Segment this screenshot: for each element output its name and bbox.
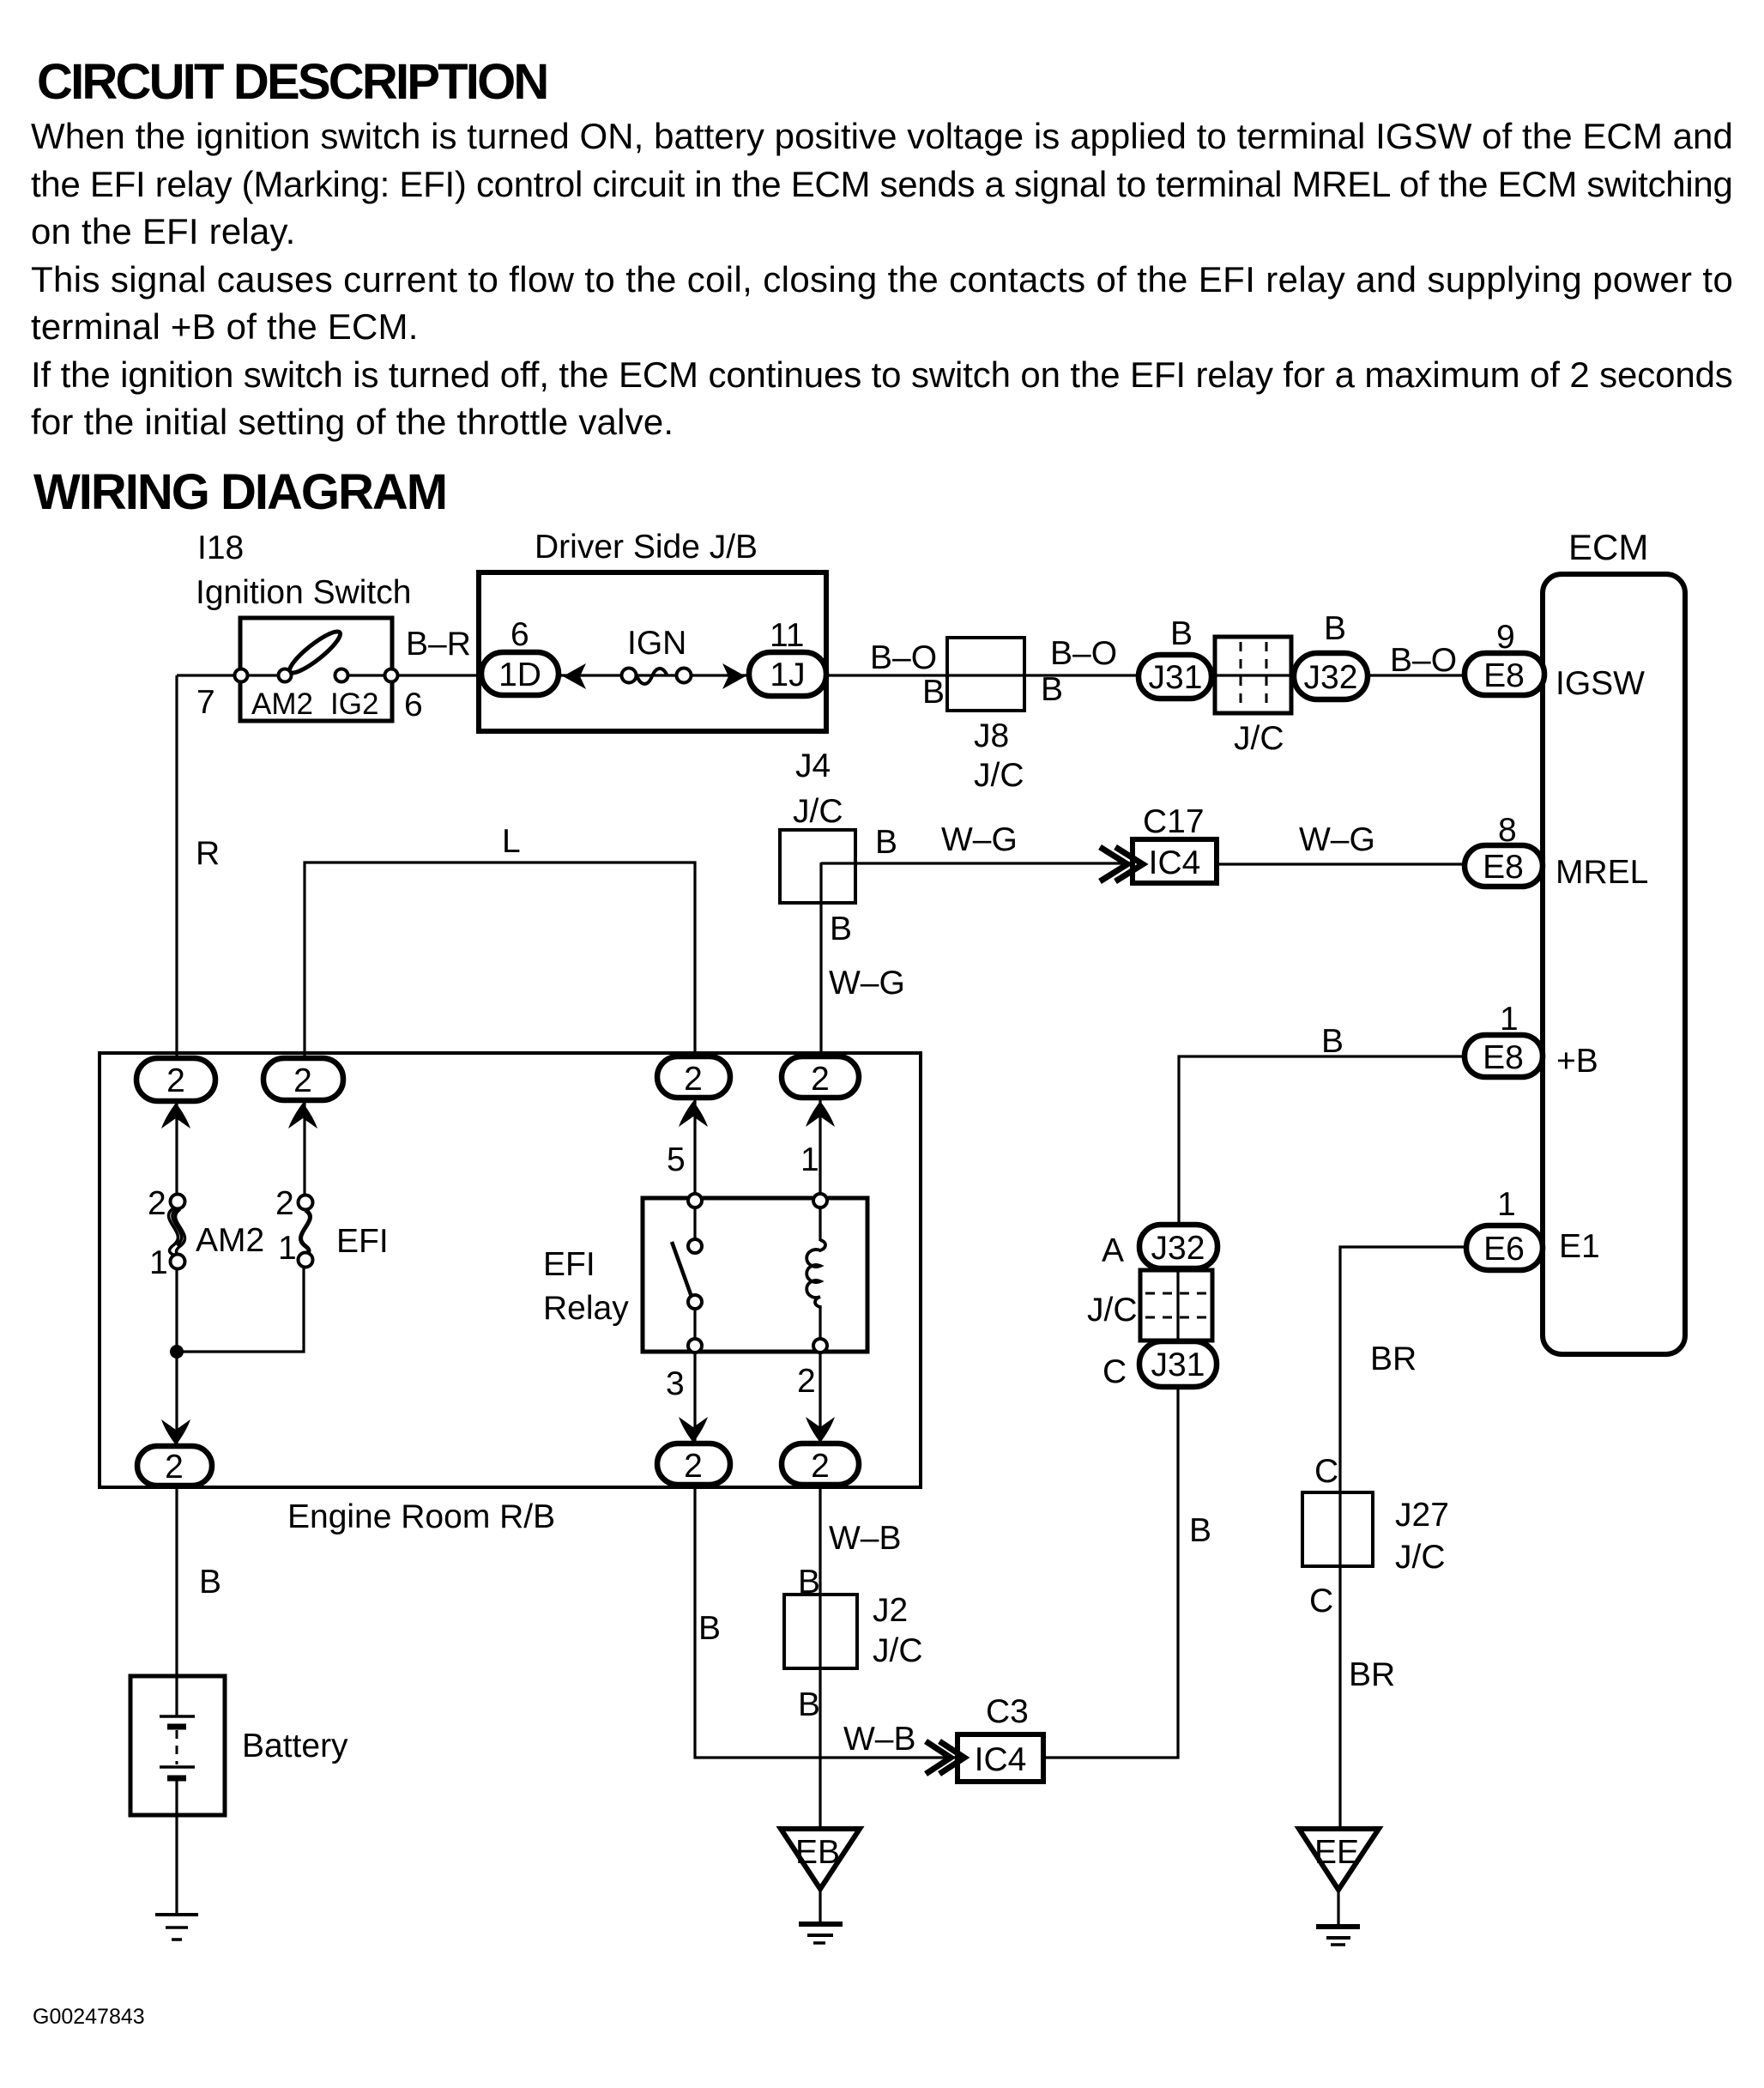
- connector oval J31 top: [1139, 655, 1211, 699]
- svg-text:B: B: [830, 911, 852, 947]
- svg-text:1J: 1J: [770, 657, 805, 693]
- svg-text:B–R: B–R: [406, 626, 471, 663]
- svg-text:9: 9: [1496, 619, 1515, 656]
- ignition switch terminal AM2: [279, 669, 292, 682]
- wire E1 from E6 to J27 to EE: [1340, 1247, 1465, 1829]
- svg-text:Engine Room R/B: Engine Room R/B: [287, 1498, 555, 1535]
- relay coil: [806, 1240, 825, 1307]
- ground symbol EE: [1316, 1927, 1360, 1945]
- svg-text:5: 5: [667, 1141, 686, 1178]
- svg-text:1D: 1D: [498, 657, 541, 693]
- svg-text:EFI: EFI: [336, 1223, 389, 1260]
- svg-text:G00247843: G00247843: [33, 2005, 145, 2029]
- junction connector J8 box: [947, 638, 1024, 711]
- svg-text:C: C: [1309, 1583, 1333, 1619]
- svg-text:EB: EB: [795, 1834, 840, 1871]
- connector C3 IC4 box: [958, 1734, 1043, 1782]
- ignition switch terminal IG2: [335, 669, 348, 682]
- up arrow oval1: [161, 1103, 190, 1129]
- svg-text:E8: E8: [1483, 1039, 1524, 1076]
- svg-text:W–G: W–G: [941, 821, 1018, 858]
- connector oval E8 +B: [1465, 1035, 1543, 1077]
- wire EB triangle to ground: [819, 1889, 821, 1924]
- svg-text:1: 1: [149, 1244, 168, 1281]
- connector oval E8 MREL: [1465, 845, 1543, 887]
- svg-text:6: 6: [510, 616, 529, 653]
- svg-text:B: B: [798, 1686, 820, 1723]
- connector oval J31 right: [1139, 1341, 1217, 1387]
- wire AM2 fuse bottom lead to junction: [175, 1270, 178, 1459]
- chevron pair C17: [1100, 847, 1143, 881]
- svg-text:C3: C3: [986, 1693, 1029, 1730]
- svg-text:Battery: Battery: [242, 1728, 348, 1764]
- wire W-B oval to J2 to EB ground: [819, 1487, 821, 1829]
- ignition switch lever: [285, 626, 344, 678]
- svg-text:C17: C17: [1143, 803, 1205, 840]
- svg-text:BR: BR: [1349, 1656, 1395, 1693]
- relay pin 3: [688, 1339, 702, 1353]
- fuse AM2 fusible link: [169, 1208, 185, 1256]
- svg-text:Driver Side J/B: Driver Side J/B: [535, 529, 758, 566]
- wire relay pin2 lead down: [819, 1353, 821, 1459]
- junction connector J/C hatched box (J32-J31 right): [1140, 1270, 1212, 1341]
- ground EE triangle: [1299, 1829, 1379, 1890]
- svg-text:J4: J4: [795, 747, 831, 784]
- oval 2 bottom row 1: [137, 1446, 212, 1486]
- svg-text:the EFI relay (Marking: EFI) c: the EFI relay (Marking: EFI) control cir…: [31, 164, 1733, 204]
- wire relay pin3 lead down: [693, 1353, 696, 1459]
- svg-text:W–G: W–G: [1299, 821, 1375, 858]
- svg-text:1: 1: [278, 1230, 297, 1267]
- svg-text:+B: +B: [1556, 1043, 1598, 1080]
- svg-text:J/C: J/C: [1395, 1539, 1446, 1576]
- relay pin 1: [813, 1194, 827, 1207]
- arrow into 1J: [722, 663, 746, 689]
- up arrow oval3: [679, 1101, 708, 1127]
- svg-text:E6: E6: [1483, 1231, 1525, 1268]
- ignition switch I18 box: [240, 618, 392, 721]
- svg-text:J/C: J/C: [793, 793, 843, 830]
- svg-text:J/C: J/C: [1087, 1292, 1138, 1328]
- svg-text:7: 7: [196, 684, 215, 721]
- svg-text:E1: E1: [1559, 1228, 1600, 1265]
- connector oval E8 IGSW: [1465, 653, 1544, 695]
- svg-text:B–O: B–O: [870, 639, 937, 676]
- battery box: [130, 1676, 225, 1815]
- svg-text:E8: E8: [1483, 849, 1524, 886]
- wire R vertical: [175, 675, 178, 1056]
- connector oval 1D: [481, 652, 559, 695]
- svg-text:When the ignition switch is tu: When the ignition switch is turned ON, b…: [31, 116, 1733, 156]
- oval 2 top row 1: [136, 1058, 215, 1101]
- Engine Room R/B box: [100, 1053, 921, 1487]
- svg-text:IGSW: IGSW: [1556, 665, 1645, 702]
- wire EFI fuse top lead: [303, 1101, 305, 1194]
- ignition switch terminal 7: [235, 669, 248, 682]
- wire B to E8 +B: [1179, 1056, 1465, 1225]
- connector oval E6: [1466, 1226, 1543, 1270]
- svg-text:J/C: J/C: [974, 757, 1024, 794]
- svg-text:6: 6: [404, 687, 423, 723]
- oval 2 top row 4: [782, 1056, 859, 1098]
- svg-text:BR: BR: [1370, 1341, 1417, 1377]
- svg-text:on the EFI relay.: on the EFI relay.: [31, 211, 295, 251]
- fuse IGN: [622, 669, 692, 684]
- relay pin 5: [688, 1194, 702, 1207]
- relay switch contacts: [688, 1239, 702, 1309]
- down arrow oval3: [679, 1417, 708, 1443]
- svg-text:1: 1: [1497, 1186, 1516, 1223]
- svg-text:IC4: IC4: [975, 1741, 1027, 1778]
- fuse EFI terminals: [299, 1195, 313, 1268]
- svg-text:B: B: [875, 824, 897, 861]
- EFI relay box: [643, 1198, 867, 1352]
- oval 2 bottom row 4: [782, 1443, 859, 1485]
- svg-text:2: 2: [148, 1185, 166, 1222]
- svg-text:J31: J31: [1151, 1347, 1205, 1383]
- relay switch blade: [672, 1242, 692, 1297]
- svg-text:J/C: J/C: [1234, 720, 1284, 757]
- wire EE triangle to ground: [1337, 1890, 1339, 1927]
- svg-text:CIRCUIT DESCRIPTION: CIRCUIT DESCRIPTION: [37, 54, 547, 110]
- fuse EFI fusible link: [301, 1210, 311, 1255]
- svg-text:11: 11: [770, 617, 805, 654]
- Driver Side J/B box: [479, 572, 826, 731]
- svg-text:B: B: [798, 1564, 820, 1601]
- wire IG2 to E8 IGSW main horizontal: [341, 674, 1465, 676]
- junction connector J/C hatched box (J31-J32 top): [1215, 637, 1291, 713]
- svg-text:W–G: W–G: [829, 965, 905, 1002]
- svg-text:C: C: [1314, 1453, 1338, 1490]
- svg-text:C: C: [1102, 1353, 1127, 1390]
- svg-text:Ignition Switch: Ignition Switch: [196, 574, 411, 611]
- svg-text:L: L: [502, 823, 521, 860]
- svg-text:B: B: [1321, 1023, 1344, 1060]
- svg-text:ECM: ECM: [1568, 527, 1648, 567]
- svg-text:J8: J8: [974, 717, 1009, 754]
- wire relay pin1 lead: [819, 1098, 821, 1241]
- junction dot: [170, 1345, 184, 1359]
- junction connector J2 box: [784, 1595, 857, 1668]
- svg-text:IG2: IG2: [330, 687, 378, 721]
- svg-text:2: 2: [811, 1061, 830, 1098]
- wire relay switch to pin3: [693, 1310, 696, 1338]
- svg-text:W–B: W–B: [843, 1721, 916, 1758]
- svg-text:B: B: [1041, 671, 1063, 708]
- svg-text:WIRING DIAGRAM: WIRING DIAGRAM: [33, 464, 446, 520]
- svg-text:EFI: EFI: [543, 1246, 595, 1283]
- svg-text:R: R: [196, 835, 220, 872]
- svg-text:for the initial setting of the: for the initial setting of the throttle …: [31, 402, 674, 442]
- wire W-G from C17 IC4 to E8 MREL: [1217, 862, 1465, 865]
- relay pin 2: [813, 1339, 827, 1353]
- svg-text:2: 2: [165, 1449, 184, 1486]
- svg-text:B: B: [1170, 615, 1193, 652]
- svg-text:B: B: [1189, 1512, 1211, 1549]
- up arrow oval2: [288, 1103, 317, 1129]
- wire W-B relay pin3 to C3 IC4: [695, 1487, 958, 1758]
- svg-text:A: A: [1102, 1232, 1124, 1269]
- svg-text:8: 8: [1498, 812, 1517, 849]
- svg-text:J/C: J/C: [873, 1632, 923, 1669]
- svg-text:J2: J2: [873, 1592, 908, 1629]
- svg-text:J32: J32: [1304, 659, 1358, 696]
- ground symbol EB: [799, 1924, 843, 1943]
- svg-text:W–B: W–B: [829, 1520, 902, 1557]
- junction connector J27 box: [1302, 1492, 1373, 1566]
- wire B-R ignition to 1D (left segment): [177, 674, 285, 676]
- wire battery feed B: [175, 1487, 178, 1716]
- svg-text:B–O: B–O: [1050, 635, 1117, 672]
- svg-text:3: 3: [666, 1365, 685, 1402]
- wire J32 J31 column down to C3 IC4: [1043, 1225, 1178, 1758]
- svg-text:This signal causes current to: This signal causes current to flow to th…: [31, 259, 1733, 300]
- svg-text:Relay: Relay: [543, 1290, 629, 1327]
- wire battery negative to ground: [175, 1778, 178, 1915]
- down arrow oval4: [806, 1417, 835, 1443]
- arrow into 1D: [563, 663, 586, 689]
- description paragraph: [31, 116, 1733, 442]
- svg-text:I18: I18: [197, 530, 244, 566]
- svg-text:terminal +B of the ECM.: terminal +B of the ECM.: [31, 306, 419, 347]
- down arrow oval1: [161, 1419, 190, 1445]
- connector oval J32 right: [1139, 1225, 1217, 1268]
- svg-text:2: 2: [797, 1363, 816, 1400]
- junction connector J4 box: [780, 830, 855, 903]
- ground EB triangle: [781, 1829, 860, 1889]
- oval 2 bottom row 3: [657, 1443, 730, 1485]
- connector oval 1J: [749, 652, 826, 696]
- battery cells: [160, 1716, 195, 1778]
- svg-text:2: 2: [293, 1062, 312, 1099]
- svg-text:2: 2: [275, 1185, 294, 1222]
- svg-text:2: 2: [684, 1061, 703, 1098]
- svg-text:AM2: AM2: [251, 687, 313, 721]
- connector C17 IC4 box: [1133, 839, 1217, 883]
- svg-text:J32: J32: [1151, 1230, 1205, 1267]
- ground symbol battery: [155, 1915, 198, 1940]
- fuse AM2 terminals: [171, 1195, 185, 1269]
- svg-text:B: B: [922, 674, 945, 711]
- svg-text:2: 2: [166, 1062, 185, 1099]
- svg-text:IGN: IGN: [627, 625, 686, 662]
- svg-text:B: B: [1324, 610, 1346, 647]
- wire relay coil to pin2: [819, 1305, 821, 1338]
- svg-text:AM2: AM2: [196, 1222, 264, 1259]
- svg-text:IC4: IC4: [1149, 844, 1201, 881]
- connector oval J32 top: [1294, 653, 1368, 699]
- svg-text:2: 2: [811, 1448, 830, 1485]
- svg-text:E8: E8: [1483, 657, 1525, 694]
- svg-text:1: 1: [800, 1141, 819, 1178]
- wire J4 vertical to relay pin1 oval: [819, 862, 822, 1056]
- wire W-G from J4 to C17 IC4: [821, 862, 1133, 864]
- ignition switch terminal 6: [385, 669, 398, 682]
- svg-text:2: 2: [684, 1448, 703, 1485]
- svg-text:J31: J31: [1149, 659, 1203, 696]
- wire branch junction to EFI fuse bottom: [177, 1268, 304, 1352]
- svg-text:B: B: [199, 1564, 221, 1601]
- svg-text:If the ignition switch is turn: If the ignition switch is turned off, th…: [31, 354, 1733, 395]
- svg-text:EE: EE: [1314, 1834, 1359, 1871]
- svg-text:B: B: [698, 1610, 721, 1647]
- chevron pair C3: [926, 1741, 964, 1774]
- ECM box: [1543, 574, 1685, 1354]
- svg-text:MREL: MREL: [1556, 854, 1648, 891]
- wire relay pin5 lead: [693, 1098, 696, 1238]
- svg-text:1: 1: [1500, 1001, 1519, 1038]
- svg-text:B–O: B–O: [1390, 642, 1457, 679]
- oval 2 top row 2: [263, 1058, 343, 1100]
- svg-text:J27: J27: [1395, 1497, 1449, 1534]
- wire AM2 fuse top lead: [175, 1101, 178, 1193]
- oval 2 top row 3: [657, 1056, 730, 1098]
- wire L from EFI fuse oval to relay pin5 oval: [305, 862, 695, 1056]
- up arrow oval4: [806, 1101, 835, 1127]
